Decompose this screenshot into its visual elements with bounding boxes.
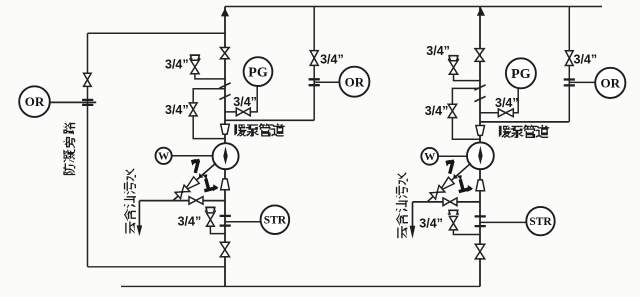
valve unit2 vent <box>449 61 457 75</box>
svg-text:3/4”: 3/4” <box>233 95 257 109</box>
instrument STR2 <box>526 207 554 235</box>
union unit1 suction <box>220 216 231 226</box>
svg-text:W: W <box>424 151 435 163</box>
wire OR branch 2 vertical <box>568 7 570 122</box>
svg-text:STR: STR <box>264 215 287 227</box>
arrow unit1 drain <box>137 225 143 236</box>
svg-text:PG: PG <box>511 67 531 82</box>
label 去含油污水 unit1 <box>124 168 136 233</box>
valve unit1 OR branch <box>310 51 318 66</box>
instrument W2 <box>421 148 438 165</box>
wire left branch top <box>88 32 226 34</box>
wire STR2 link <box>480 221 526 223</box>
wire unit1 drain line <box>139 200 225 202</box>
wire OR0 link <box>50 101 96 103</box>
valve unit1 PG <box>236 108 250 116</box>
wire unit2 drain branch <box>453 230 480 235</box>
reducer unit1 above pump <box>221 124 230 134</box>
instrument W1 <box>156 148 172 164</box>
arrow unit2 drain <box>410 226 416 239</box>
pump P1 impeller arrow <box>223 146 227 165</box>
zigzag break unit1 <box>219 83 230 100</box>
label 暖泵管道 unit2 <box>499 124 549 138</box>
svg-text:3/4”: 3/4” <box>165 103 189 117</box>
instrument PG1 <box>244 57 273 86</box>
svg-text:OR: OR <box>25 94 45 109</box>
wire unit1 vent branch <box>195 74 225 79</box>
valve unit2 riser bottom <box>475 244 484 259</box>
svg-text:3/4”: 3/4” <box>165 58 189 72</box>
plug unit2 vent <box>448 56 459 60</box>
valve unit2 drain <box>443 198 457 206</box>
plug unit1 drain branch <box>205 207 216 211</box>
label 去含油污水 unit2 <box>396 172 408 238</box>
valve V2 unit2 riser top <box>475 49 484 62</box>
wire unit2 pump bypass loop <box>452 88 480 139</box>
valve unit1 drain branch <box>207 213 215 226</box>
wire unit2 drain drop <box>412 202 414 227</box>
reducer unit2 below pump <box>476 180 485 191</box>
instrument OR0 <box>19 86 50 117</box>
pump P2 circle <box>467 142 494 169</box>
wire OR1 link <box>314 81 339 83</box>
union unit2 suction <box>475 216 486 226</box>
wire W2 link <box>438 155 467 157</box>
svg-text:3/4”: 3/4” <box>495 96 519 110</box>
valve unit2 PG <box>498 109 513 117</box>
valve unit2 drain branch <box>449 216 457 230</box>
svg-text:3/4”: 3/4” <box>320 53 344 67</box>
pump P1 circle <box>213 143 239 169</box>
svg-text:STR: STR <box>529 216 552 228</box>
instrument PG2 <box>506 58 536 88</box>
svg-text:3/4”: 3/4” <box>574 53 598 67</box>
label 暖泵管道 unit1 <box>234 123 284 137</box>
valve unit1 vent <box>191 60 199 73</box>
plug unit2 drain branch <box>448 210 459 214</box>
svg-text:3/4”: 3/4” <box>426 44 450 58</box>
svg-text:3/4”: 3/4” <box>419 217 443 231</box>
svg-text:PG: PG <box>248 66 268 81</box>
valve on bypass line <box>84 73 92 86</box>
instrument OR1 <box>339 67 369 97</box>
wire unit2 discharge link <box>480 121 569 123</box>
wire OR2 link <box>569 81 595 83</box>
valve unit2 OR branch <box>565 51 573 66</box>
pump P2 impeller arrow <box>478 146 482 165</box>
valve unit1 drain <box>189 197 203 205</box>
wire top header <box>225 6 602 8</box>
svg-text:OR: OR <box>601 75 621 90</box>
wire bypass left vertical <box>87 33 89 266</box>
reducer unit1 below pump <box>221 179 230 190</box>
wire unit1 drain drop <box>138 201 140 227</box>
wire STR1 link <box>225 221 261 223</box>
union unit1 OR branch <box>309 79 320 85</box>
plug unit1 vent <box>189 55 200 59</box>
wire unit1 drain branch <box>210 226 225 233</box>
valve unit2 bypass <box>448 104 456 117</box>
svg-text:3/4”: 3/4” <box>425 104 449 118</box>
union fitting bypass <box>82 100 93 105</box>
reducer unit2 above pump <box>476 126 485 136</box>
wire W1 link <box>172 155 213 157</box>
valve unit1 riser bottom <box>220 242 229 256</box>
flow arrow up unit2 <box>477 7 485 16</box>
wire bottom connector A <box>88 266 226 268</box>
wire unit1 riser <box>224 7 226 287</box>
wire unit2 vent branch <box>454 74 481 80</box>
wire unit1 discharge link <box>225 119 314 121</box>
svg-text:OR: OR <box>345 74 365 89</box>
union unit2 OR branch <box>564 80 575 86</box>
wire unit1 pump bypass loop <box>193 89 225 139</box>
wire unit2 riser <box>479 7 481 287</box>
flow arrow up unit1 <box>221 8 229 16</box>
valve unit1 bypass <box>189 103 197 116</box>
svg-text:3/4”: 3/4” <box>178 215 202 229</box>
wire OR branch 1 vertical <box>313 7 315 121</box>
instrument STR1 <box>261 205 290 234</box>
wire unit2 PG line <box>480 88 518 113</box>
label 防凝旁路 <box>63 122 75 176</box>
wire unit1 PG line <box>225 86 257 112</box>
drain assembly unit2 <box>425 160 474 205</box>
wire bottom return line B <box>121 285 480 287</box>
wire unit2 drain line <box>413 201 481 203</box>
drain assembly unit1 <box>170 159 219 203</box>
svg-text:W: W <box>158 151 169 163</box>
instrument OR2 <box>595 68 625 98</box>
zigzag break unit2 <box>474 85 485 102</box>
valve V1 unit1 riser top <box>220 48 229 59</box>
